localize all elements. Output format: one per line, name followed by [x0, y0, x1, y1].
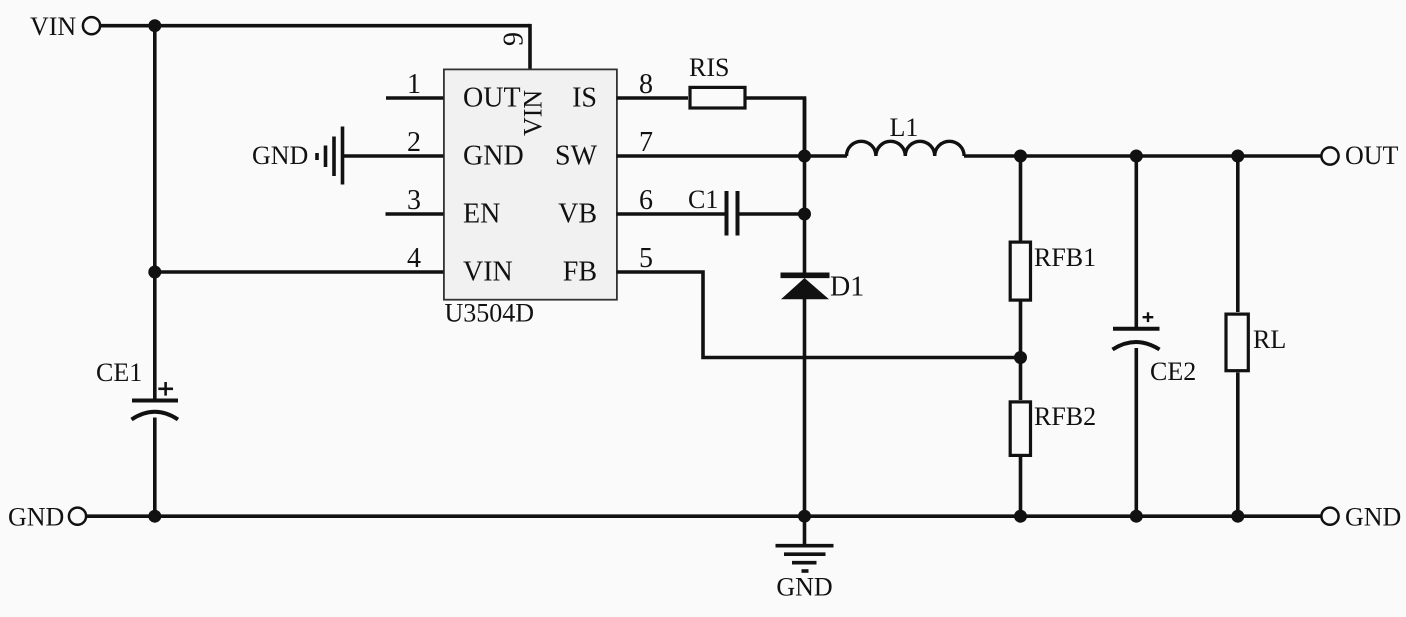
node: CE2 ground junction — [1130, 510, 1143, 523]
wire: pin 8 to RIS — [617, 96, 689, 100]
svg-text:9: 9 — [499, 32, 530, 46]
svg-text:RFB1: RFB1 — [1034, 243, 1096, 272]
node: CE1 ground junction — [148, 510, 161, 523]
node: FB divider junction — [1014, 351, 1027, 364]
wire: pin 5 FB to divider — [617, 272, 1021, 358]
wire: C1 to SW column — [740, 212, 805, 216]
wire: junction down to CE1 — [153, 272, 157, 400]
svg-text:VIN: VIN — [30, 12, 76, 41]
svg-text:GND: GND — [463, 140, 524, 171]
wire: pin 6 VB to C1 — [617, 212, 726, 216]
node: RFB2 ground junction — [1014, 510, 1027, 523]
svg-text:VIN: VIN — [463, 256, 513, 287]
wire: VIN top rail — [100, 24, 530, 28]
wire: SW column down to D1 — [803, 98, 807, 273]
ground (bottom earth symbol) — [776, 516, 834, 601]
wire: RFB1 to FB node — [1019, 301, 1023, 358]
node: RL top junction — [1231, 150, 1244, 163]
svg-text:OUT: OUT — [463, 82, 521, 113]
node: CE2 top junction — [1130, 150, 1143, 163]
resistor RIS — [689, 53, 745, 108]
svg-text:FB: FB — [563, 256, 597, 287]
svg-text:GND: GND — [8, 503, 64, 532]
wire: ground bus — [87, 514, 1322, 518]
resistor RL — [1226, 314, 1286, 371]
svg-text:GND: GND — [776, 573, 832, 602]
wire: RL to ground bus — [1236, 373, 1240, 517]
wire: pin 1 stub — [386, 96, 444, 100]
capacitor CE2 (polarized electrolytic) — [1113, 312, 1197, 386]
wire: VIN rail drop to pin 9 — [528, 24, 532, 70]
svg-text:EN: EN — [463, 198, 500, 229]
wire: CE1 to ground bus — [153, 418, 157, 517]
diode D1 — [781, 272, 865, 303]
IC U3504D — [444, 69, 617, 299]
inductor L1 — [847, 113, 965, 156]
svg-text:RIS: RIS — [689, 53, 729, 82]
svg-text:8: 8 — [639, 69, 653, 100]
terminal GND (left) — [8, 503, 86, 532]
capacitor CE1 (polarized electrolytic) — [96, 358, 178, 420]
svg-text:VB: VB — [558, 198, 597, 229]
wire: D1 anode to ground bus — [803, 299, 807, 516]
terminal GND (right) — [1321, 503, 1401, 532]
svg-text:VIN: VIN — [519, 90, 548, 136]
capacitor C1 — [688, 185, 738, 236]
wire: pin 3 stub — [386, 212, 444, 216]
node: feedback divider top junction — [1014, 150, 1027, 163]
svg-text:U3504D: U3504D — [445, 299, 535, 328]
wire: pin 2 to ground symbol — [344, 154, 444, 158]
svg-text:4: 4 — [407, 243, 421, 274]
svg-text:RFB2: RFB2 — [1034, 402, 1096, 431]
wire: CE2 to ground bus — [1135, 348, 1139, 516]
svg-text:CE1: CE1 — [96, 358, 142, 387]
wire: FB node to RFB2 — [1019, 358, 1023, 401]
svg-text:GND: GND — [1345, 503, 1401, 532]
wire: pin 4 from VIN branch — [155, 270, 444, 274]
svg-text:RL: RL — [1253, 325, 1286, 354]
svg-text:D1: D1 — [830, 272, 864, 303]
resistor RFB1 — [1010, 242, 1096, 300]
terminal OUT — [1321, 141, 1398, 170]
resistor RFB2 — [1010, 402, 1096, 456]
node: SW junction — [798, 150, 811, 163]
svg-text:CE2: CE2 — [1150, 357, 1196, 386]
wire: pin 7 SW to inductor — [617, 154, 848, 158]
node: RL ground junction — [1231, 510, 1244, 523]
wire: VIN branch down left side — [153, 26, 157, 272]
wire: L1 to OUT terminal — [964, 154, 1321, 158]
wire: OUT rail down to CE2 — [1135, 156, 1139, 329]
svg-text:GND: GND — [252, 141, 308, 170]
wire: RFB2 to ground bus — [1019, 457, 1023, 516]
svg-text:1: 1 — [407, 69, 421, 100]
node: C1 / SW column junction — [798, 208, 811, 221]
node: pin4 VIN branch junction — [148, 266, 161, 279]
svg-text:L1: L1 — [890, 113, 919, 142]
svg-text:2: 2 — [407, 127, 421, 158]
node: VIN rail junction — [148, 19, 161, 32]
wire: OUT rail down to RFB1 — [1019, 156, 1023, 242]
ground (left, at pin 2) — [252, 127, 343, 185]
wire: RIS to SW column corner — [747, 98, 805, 156]
svg-text:C1: C1 — [688, 185, 718, 214]
svg-text:SW: SW — [555, 140, 598, 171]
svg-text:3: 3 — [407, 185, 421, 216]
svg-text:7: 7 — [639, 127, 653, 158]
wire: OUT rail down to RL — [1236, 156, 1240, 312]
svg-text:5: 5 — [639, 243, 653, 274]
svg-text:IS: IS — [572, 82, 597, 113]
node: D1 ground junction — [798, 510, 811, 523]
svg-text:OUT: OUT — [1345, 141, 1399, 170]
terminal VIN — [30, 12, 100, 41]
svg-text:6: 6 — [639, 185, 653, 216]
